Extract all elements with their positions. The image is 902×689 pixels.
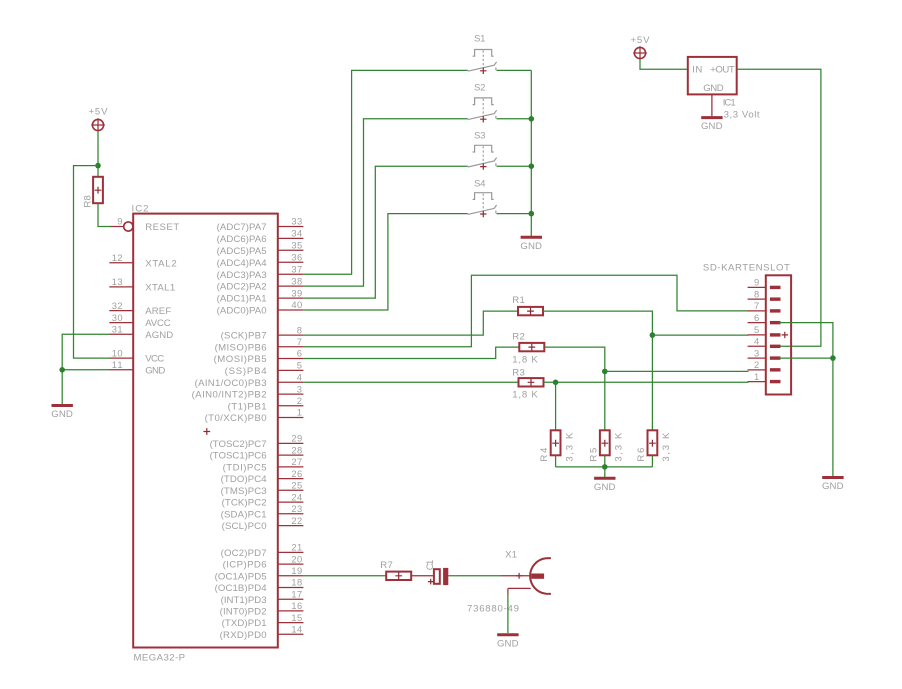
wire — [497, 69, 532, 71]
ground GND5 — [822, 478, 844, 493]
svg-text:3,3 K: 3,3 K — [564, 432, 575, 462]
pin 28 (TOSC1)PC6 — [210, 444, 304, 461]
svg-text:3,3 K: 3,3 K — [661, 432, 672, 462]
wire — [544, 347, 605, 430]
junction n5 — [650, 332, 656, 338]
wire — [97, 132, 99, 177]
pin 13 XTAL1 — [109, 276, 175, 293]
SD connector origin cross — [782, 332, 788, 338]
svg-text:3: 3 — [297, 383, 302, 394]
svg-text:XTAL2: XTAL2 — [145, 258, 177, 269]
svg-text:39: 39 — [291, 287, 302, 298]
svg-text:AREF: AREF — [145, 306, 171, 317]
pin 9 RESET — [110, 216, 179, 233]
svg-text:4: 4 — [297, 372, 302, 383]
wire — [448, 575, 501, 577]
svg-text:IC1: IC1 — [723, 97, 736, 108]
svg-text:10: 10 — [112, 347, 123, 358]
svg-text:13: 13 — [112, 276, 123, 287]
junction gnd5 — [830, 355, 836, 361]
pin 40 (ADC0)PA0 — [217, 299, 304, 316]
ground GND4 — [594, 478, 616, 493]
wire — [555, 455, 557, 467]
svg-text:(TDO)PC4: (TDO)PC4 — [221, 474, 268, 485]
wire — [303, 347, 519, 358]
svg-text:3,3 Volt: 3,3 Volt — [724, 109, 760, 120]
wire — [737, 69, 821, 346]
svg-text:11: 11 — [112, 359, 123, 370]
wire — [605, 370, 749, 372]
wire — [640, 60, 688, 70]
svg-text:17: 17 — [291, 588, 302, 599]
svg-text:736880-49: 736880-49 — [467, 604, 519, 615]
wire — [651, 455, 653, 467]
svg-text:2: 2 — [297, 395, 302, 406]
ground GND6 — [497, 635, 519, 650]
svg-text:(INT0)PD2: (INT0)PD2 — [220, 607, 267, 618]
pin 16 (INT0)PD2 — [220, 600, 304, 617]
svg-text:26: 26 — [291, 468, 302, 479]
SD pin 7 — [748, 300, 781, 313]
svg-text:14: 14 — [291, 624, 302, 635]
resistor R4 — [539, 430, 575, 461]
SD pin 5 — [748, 324, 781, 337]
SD pin 3 — [748, 347, 781, 360]
supply +5V (right) — [631, 35, 651, 60]
svg-text:XTAL1: XTAL1 — [145, 283, 175, 294]
junction A — [95, 163, 101, 169]
pin 21 (OC2)PD7 — [221, 542, 304, 559]
svg-text:8: 8 — [297, 324, 302, 335]
pin 12 XTAL2 — [109, 252, 176, 269]
svg-text:29: 29 — [291, 433, 302, 444]
svg-text:(OC1B)PD4: (OC1B)PD4 — [215, 583, 268, 594]
svg-text:IN: IN — [692, 65, 702, 76]
svg-text:7: 7 — [754, 300, 759, 311]
wire — [74, 166, 111, 359]
wire — [497, 165, 532, 167]
connector X1 736880-49 audio jack — [467, 550, 551, 615]
svg-text:1: 1 — [297, 407, 302, 418]
pin 27 (TDI)PC5 — [223, 456, 304, 473]
svg-text:(SCK)PB7: (SCK)PB7 — [221, 331, 267, 342]
svg-text:R3: R3 — [512, 367, 525, 378]
svg-text:6: 6 — [754, 312, 759, 323]
svg-text:(SS)PB4: (SS)PB4 — [225, 366, 268, 377]
resistor R5 — [588, 430, 624, 461]
svg-text:(SDA)PC1: (SDA)PC1 — [221, 509, 267, 520]
svg-text:31: 31 — [112, 324, 123, 335]
svg-text:SD-KARTENSLOT: SD-KARTENSLOT — [703, 263, 790, 274]
wire R7 to C1 — [411, 575, 434, 577]
junction S3c — [529, 163, 535, 169]
svg-text:(AIN1/OC0)PB3: (AIN1/OC0)PB3 — [195, 378, 267, 389]
resistor R8 — [82, 177, 103, 208]
resistor R7 — [380, 560, 411, 580]
svg-text:GND: GND — [701, 121, 723, 132]
wire — [530, 70, 532, 236]
pin 6 (MOSI)PB5 — [214, 348, 304, 365]
svg-text:GND: GND — [822, 481, 844, 492]
svg-text:8: 8 — [754, 288, 759, 299]
capacitor C1 — [425, 560, 448, 585]
pin 4 (AIN1/OC0)PB3 — [195, 372, 304, 389]
wire — [303, 275, 748, 347]
svg-text:12: 12 — [112, 252, 123, 263]
svg-text:18: 18 — [291, 577, 302, 588]
svg-text:GND: GND — [594, 482, 616, 493]
pin 36 (ADC4)PA4 — [217, 252, 304, 269]
svg-text:(MOSI)PB5: (MOSI)PB5 — [214, 354, 267, 365]
svg-text:5: 5 — [754, 324, 759, 335]
svg-text:(ADC0)PA0: (ADC0)PA0 — [217, 306, 267, 317]
svg-text:(INT1)PD3: (INT1)PD3 — [221, 595, 267, 606]
pin 8 (SCK)PB7 — [221, 324, 304, 341]
connector SD-KARTENSLOT — [703, 263, 791, 395]
svg-text:VCC: VCC — [145, 354, 164, 365]
wire — [497, 118, 532, 120]
ground GND2 — [520, 237, 542, 252]
wire — [98, 203, 111, 226]
switch S1 — [468, 34, 497, 74]
pin 25 (TMS)PC3 — [221, 480, 304, 497]
svg-text:(OC1A)PD5: (OC1A)PD5 — [215, 571, 267, 582]
wire X1 sleeve to GND — [507, 588, 509, 594]
svg-text:R2: R2 — [512, 331, 525, 342]
pin 15 (TXD)PD1 — [222, 612, 304, 629]
wire — [832, 358, 834, 476]
svg-text:(T1)PB1: (T1)PB1 — [228, 401, 267, 412]
wire — [303, 70, 467, 274]
svg-text:(ADC4)PA4: (ADC4)PA4 — [217, 258, 268, 269]
svg-text:25: 25 — [291, 480, 302, 491]
pin 37 (ADC3)PA3 — [217, 263, 304, 280]
switch S4 — [468, 178, 497, 217]
svg-text:15: 15 — [291, 612, 302, 623]
svg-text:22: 22 — [291, 515, 302, 526]
junction n1 — [553, 380, 559, 386]
svg-text:28: 28 — [291, 444, 302, 455]
pin 18 (OC1B)PD4 — [215, 577, 304, 594]
svg-text:RESET: RESET — [145, 222, 179, 233]
svg-text:GND: GND — [703, 83, 723, 94]
junction gnd4 — [602, 464, 608, 470]
junction S4c — [529, 211, 535, 217]
pin 35 (ADC5)PA5 — [217, 240, 304, 257]
pin 30 AVCC — [109, 312, 170, 329]
svg-text:4: 4 — [754, 336, 759, 347]
svg-text:(ADC3)PA3: (ADC3)PA3 — [217, 270, 267, 281]
wire — [62, 334, 110, 404]
svg-text:1,8 K: 1,8 K — [512, 354, 538, 365]
svg-text:(ADC7)PA7: (ADC7)PA7 — [217, 222, 267, 233]
svg-text:(TOSC1)PC6: (TOSC1)PC6 — [210, 451, 267, 462]
wire — [303, 119, 467, 286]
pin 11 GND — [109, 359, 165, 376]
pin 22 (SCL)PC0 — [222, 515, 304, 532]
wire — [497, 213, 532, 215]
wire — [555, 382, 557, 430]
svg-text:3: 3 — [754, 347, 759, 358]
svg-text:GND: GND — [51, 409, 73, 420]
wire — [303, 311, 518, 335]
pin 2 (T1)PB1 — [228, 395, 304, 412]
junction B — [59, 367, 65, 373]
voltage regulator IC1 3,3 Volt — [688, 57, 760, 121]
svg-text:AVCC: AVCC — [145, 318, 171, 329]
svg-text:34: 34 — [291, 228, 302, 239]
svg-text:20: 20 — [291, 553, 302, 564]
wire — [604, 455, 606, 467]
svg-text:MEGA32-P: MEGA32-P — [134, 653, 186, 664]
svg-text:35: 35 — [291, 240, 302, 251]
svg-text:GND: GND — [520, 241, 542, 252]
svg-text:19: 19 — [291, 565, 302, 576]
svg-text:R7: R7 — [380, 560, 393, 571]
resistor R2 — [512, 331, 544, 365]
wire — [779, 323, 833, 358]
wire — [303, 166, 467, 298]
svg-text:5: 5 — [297, 360, 302, 371]
pin 20 (ICP)PD6 — [223, 553, 304, 570]
svg-text:32: 32 — [112, 300, 123, 311]
pin 31 AGND — [109, 324, 173, 341]
ground GND3 — [701, 118, 723, 133]
pin 39 (ADC1)PA1 — [217, 287, 304, 304]
svg-text:(OC2)PD7: (OC2)PD7 — [221, 548, 267, 559]
pin 33 (ADC7)PA7 — [217, 216, 304, 233]
resistor R1 — [512, 295, 543, 315]
svg-text:(RXD)PD0: (RXD)PD0 — [220, 630, 267, 641]
junction S2c — [529, 116, 535, 122]
pin 10 VCC — [109, 347, 164, 364]
svg-text:+OUT: +OUT — [710, 65, 735, 76]
svg-text:AGND: AGND — [145, 330, 173, 341]
svg-text:3,3 K: 3,3 K — [614, 432, 625, 462]
wire — [544, 381, 749, 383]
svg-text:IC2: IC2 — [132, 203, 149, 214]
svg-text:(AIN0/INT2)PB2: (AIN0/INT2)PB2 — [192, 390, 267, 401]
SD pin 2 — [748, 359, 781, 372]
pin 24 (TCK)PC2 — [222, 491, 304, 508]
svg-text:36: 36 — [291, 252, 302, 263]
svg-text:7: 7 — [297, 336, 302, 347]
svg-text:(ADC2)PA2: (ADC2)PA2 — [217, 282, 267, 293]
svg-text:1,8 K: 1,8 K — [512, 390, 538, 401]
svg-text:+5V: +5V — [631, 35, 651, 46]
svg-text:(TCK)PC2: (TCK)PC2 — [222, 498, 267, 509]
svg-text:(TDI)PC5: (TDI)PC5 — [223, 463, 267, 474]
svg-text:(ICP)PD6: (ICP)PD6 — [223, 560, 267, 571]
wire — [303, 381, 518, 383]
svg-text:2: 2 — [754, 359, 759, 370]
wire — [303, 214, 467, 310]
svg-text:16: 16 — [291, 600, 302, 611]
SD pin 9 — [748, 277, 781, 290]
wire — [543, 311, 652, 430]
resistor R6 — [636, 430, 672, 461]
svg-text:R1: R1 — [512, 295, 525, 306]
svg-text:S2: S2 — [474, 83, 486, 94]
SD pin 1 — [748, 371, 781, 384]
svg-text:27: 27 — [291, 456, 302, 467]
pin 23 (SDA)PC1 — [221, 503, 304, 520]
SD pin 6 — [748, 312, 781, 325]
wire — [779, 357, 833, 359]
svg-text:1: 1 — [754, 371, 759, 382]
svg-text:38: 38 — [291, 275, 302, 286]
svg-text:(SCL)PC0: (SCL)PC0 — [222, 521, 267, 532]
ground GND1 — [51, 406, 73, 421]
svg-text:(TOSC2)PC7: (TOSC2)PC7 — [210, 439, 267, 450]
svg-text:S1: S1 — [474, 34, 486, 45]
wire — [303, 575, 386, 577]
svg-text:6: 6 — [297, 348, 302, 359]
svg-text:+5V: +5V — [89, 106, 109, 117]
svg-text:(ADC1)PA1: (ADC1)PA1 — [217, 294, 267, 305]
svg-text:GND: GND — [145, 365, 165, 376]
svg-text:33: 33 — [291, 216, 302, 227]
SD pin 8 — [748, 288, 781, 301]
wire — [507, 595, 509, 634]
svg-text:(ADC6)PA6: (ADC6)PA6 — [217, 234, 267, 245]
pin 34 (ADC6)PA6 — [217, 228, 304, 245]
svg-text:(ADC5)PA5: (ADC5)PA5 — [217, 246, 267, 257]
svg-text:C1: C1 — [425, 560, 436, 571]
wire — [62, 369, 110, 371]
svg-text:GND: GND — [497, 638, 519, 649]
pin 19 (OC1A)PD5 — [215, 565, 304, 582]
svg-text:(T0/XCK)PB0: (T0/XCK)PB0 — [205, 413, 267, 424]
svg-text:S4: S4 — [474, 178, 486, 189]
switch S3 — [468, 131, 497, 170]
svg-text:S3: S3 — [474, 131, 486, 142]
svg-text:(TXD)PD1: (TXD)PD1 — [222, 618, 267, 629]
svg-text:9: 9 — [117, 216, 122, 227]
svg-text:R8: R8 — [82, 195, 93, 208]
pin 32 AREF — [109, 300, 171, 317]
svg-text:24: 24 — [291, 491, 302, 502]
pin 17 (INT1)PD3 — [221, 588, 304, 605]
supply +5V (left) — [89, 106, 109, 132]
switch S2 — [468, 83, 497, 123]
svg-text:23: 23 — [291, 503, 302, 514]
junction n2 — [602, 369, 608, 375]
svg-text:(MISO)PB6: (MISO)PB6 — [215, 342, 267, 353]
svg-text:(TMS)PC3: (TMS)PC3 — [221, 486, 267, 497]
svg-text:30: 30 — [112, 312, 123, 323]
wire — [604, 467, 606, 477]
svg-text:9: 9 — [754, 277, 759, 288]
pin 26 (TDO)PC4 — [221, 468, 304, 485]
wire — [556, 466, 653, 468]
pin 5 (SS)PB4 — [225, 360, 304, 377]
pin 3 (AIN0/INT2)PB2 — [192, 383, 304, 400]
pin 14 (RXD)PD0 — [220, 624, 304, 641]
svg-text:X1: X1 — [505, 550, 517, 561]
IC U1: microcontroller IC2 MEGA32-P body — [132, 203, 278, 663]
pin 7 (MISO)PB6 — [215, 336, 304, 353]
pin 38 (ADC2)PA2 — [217, 275, 304, 292]
wire — [652, 334, 748, 336]
resistor R3 — [512, 367, 543, 400]
svg-text:37: 37 — [291, 263, 302, 274]
SD pin 4 — [748, 336, 781, 349]
pin 29 (TOSC2)PC7 — [210, 433, 304, 450]
svg-text:40: 40 — [291, 299, 302, 310]
IC2 origin cross — [203, 428, 210, 435]
svg-text:21: 21 — [291, 542, 302, 553]
pin 1 (T0/XCK)PB0 — [205, 407, 304, 424]
